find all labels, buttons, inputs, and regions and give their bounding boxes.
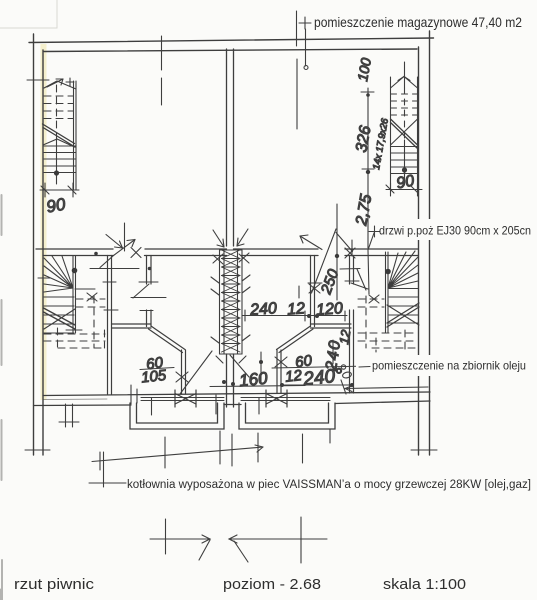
door 60/105 leaf — [104, 282, 166, 311]
leader oil room label — [341, 365, 370, 379]
door swing corridor left — [90, 223, 158, 282]
scan artifact corner box top-left — [0, 0, 57, 28]
vertical dim line x368 with ticks — [361, 88, 374, 248]
interior wall left unit long — [108, 256, 112, 395]
bottom wall — [34, 392, 431, 406]
extension lines below bottom wall — [100, 385, 330, 470]
svg-text:90: 90 — [395, 173, 416, 193]
wall tick marks right unit — [275, 357, 287, 367]
party wall below chimney — [227, 354, 234, 407]
window W1 cross — [175, 390, 196, 407]
svg-text:160: 160 — [238, 368, 269, 390]
svg-text:100: 100 — [354, 57, 374, 83]
short vertical dim x333 — [332, 340, 334, 364]
svg-text:skala 1:100: skala 1:100 — [383, 576, 466, 593]
corridor wall left unit — [36, 249, 227, 256]
door swing corridor right (fire door) — [300, 233, 355, 259]
vertical line x337 at fire door — [336, 204, 338, 300]
svg-text:105: 105 — [140, 367, 167, 387]
light well bay left — [130, 403, 224, 429]
wall tick marks left unit — [103, 282, 188, 382]
value 60 over 105 left — [140, 354, 174, 386]
interior wall left unit duct — [112, 256, 152, 329]
chamfer wall right unit — [277, 326, 314, 393]
dots near chimney bottom dim — [222, 380, 226, 384]
interior wall right unit duct — [311, 256, 352, 329]
svg-text:pomieszczenie na zbiornik olej: pomieszczenie na zbiornik oleju — [372, 359, 526, 373]
diagonal dim line 250 — [312, 229, 337, 293]
stair S3 left winder — [38, 256, 105, 349]
chimney rungs and hatch — [222, 250, 241, 352]
up-run arrow below chimney — [216, 355, 249, 377]
corridor wall right unit — [234, 249, 419, 256]
svg-text:drzwi p.poż EJ30 90cm x 205cn: drzwi p.poż EJ30 90cm x 205cn — [379, 224, 531, 238]
outer wall left — [34, 34, 44, 455]
interior wall right unit long — [350, 256, 354, 394]
svg-text:12: 12 — [287, 300, 306, 318]
outer wall right — [419, 31, 430, 455]
leader line kotlownia — [89, 445, 263, 487]
vertical line x352 above oil room — [351, 240, 353, 256]
svg-text:90: 90 — [45, 194, 67, 216]
svg-text:250: 250 — [317, 266, 342, 297]
svg-text:12: 12 — [336, 328, 353, 346]
outer wall top — [29, 38, 434, 52]
label mask oil tank room — [356, 355, 537, 376]
dim line oil room to wall — [341, 380, 428, 394]
label mask fire door — [370, 219, 537, 240]
centre party wall — [227, 49, 234, 246]
svg-text:pomieszczenie magazynowe 47,40: pomieszczenie magazynowe 47,40 m2 — [314, 14, 522, 30]
tick left wall upper — [27, 79, 49, 81]
stair S4 right winder — [358, 251, 419, 352]
dimension 90 left stair — [40, 183, 79, 197]
centre mark left — [150, 519, 210, 560]
svg-text:326: 326 — [353, 124, 374, 153]
stair S2 top-right straight — [391, 62, 418, 190]
svg-text:120: 120 — [316, 300, 344, 319]
light well bay right — [239, 403, 335, 429]
scan edge artifact left — [1, 195, 2, 600]
svg-text:240: 240 — [249, 300, 278, 319]
svg-text:14x 17,9x26: 14x 17,9x26 — [371, 117, 391, 171]
window W2 cross — [266, 390, 287, 407]
exterior step lines bottom-left — [59, 404, 79, 427]
dim line oil room — [280, 383, 354, 387]
chamfer wall left unit — [149, 326, 186, 394]
vertical dim line at x162 left unit — [161, 36, 163, 70]
dimension 90 right stair — [386, 183, 422, 196]
highlighter mark along left inner wall — [41, 44, 47, 400]
window sill lines bottom wall — [141, 397, 224, 399]
svg-text:rzut piwnic: rzut piwnic — [14, 576, 95, 593]
dim line 240 12 120 — [242, 286, 347, 321]
vertical line x297 right unit — [296, 11, 298, 46]
tick bottom-left wall — [25, 449, 50, 451]
cross marker drzwi label — [368, 226, 380, 294]
stair S1 top-left straight — [43, 78, 77, 190]
value 60 right with leader to text — [272, 352, 370, 371]
svg-text:12: 12 — [284, 367, 303, 386]
door swing right unit room — [308, 269, 368, 294]
svg-text:poziom - 2.68: poziom - 2.68 — [223, 576, 321, 593]
svg-text:kotłownia wyposażona w piec V: kotłownia wyposażona w piec VAISSMAN’a o… — [127, 479, 531, 491]
arrows into chimney — [213, 229, 248, 247]
chimney side arrow ticks — [211, 253, 250, 343]
centre mark right — [229, 517, 327, 563]
tick bottom-right wall — [411, 449, 437, 451]
cross marker storage label — [299, 17, 311, 70]
chimney flue hatched — [220, 250, 243, 354]
